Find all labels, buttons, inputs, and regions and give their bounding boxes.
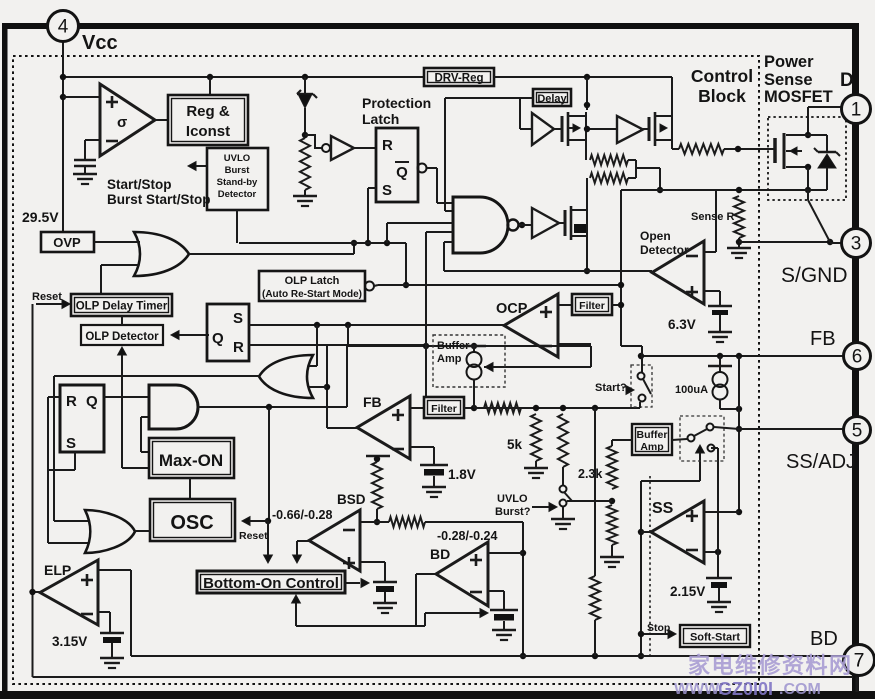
svg-text:OSC: OSC	[170, 512, 213, 534]
svg-text:OLP Delay Timer: OLP Delay Timer	[76, 301, 168, 313]
svg-text:R: R	[233, 339, 244, 356]
svg-text:SS: SS	[652, 500, 674, 517]
svg-text:GZ0I0I: GZ0I0I	[718, 679, 773, 699]
svg-text:Burst: Burst	[225, 165, 251, 176]
svg-text:FB: FB	[363, 394, 382, 410]
svg-text:6.3V: 6.3V	[668, 317, 696, 332]
svg-text:Sense R: Sense R	[691, 211, 734, 223]
svg-text:Amp: Amp	[437, 353, 462, 365]
svg-text:Control: Control	[691, 66, 753, 86]
svg-text:Amp: Amp	[640, 441, 663, 453]
svg-text:SS/ADJ: SS/ADJ	[786, 451, 856, 473]
svg-text:-0.66/-0.28: -0.66/-0.28	[272, 508, 333, 522]
svg-text:BSD: BSD	[337, 492, 366, 507]
svg-text:Q: Q	[86, 393, 98, 410]
svg-text:OVP: OVP	[53, 235, 81, 250]
svg-text:2.3k: 2.3k	[578, 467, 602, 481]
svg-text:Vcc: Vcc	[82, 32, 118, 54]
svg-text:DRV-Reg: DRV-Reg	[435, 73, 484, 85]
svg-text:家电维修资料网: 家电维修资料网	[688, 653, 853, 678]
svg-text:1.8V: 1.8V	[448, 467, 476, 482]
svg-text:Sense: Sense	[764, 71, 813, 89]
svg-text:6: 6	[852, 347, 863, 368]
svg-text:MOSFET: MOSFET	[764, 88, 833, 106]
svg-text:R: R	[382, 137, 393, 154]
svg-text:Block: Block	[698, 86, 746, 106]
svg-text:OLP Detector: OLP Detector	[85, 331, 159, 343]
svg-text:5: 5	[852, 421, 863, 442]
svg-text:S: S	[233, 310, 243, 327]
svg-text:Reg &: Reg &	[186, 103, 230, 120]
svg-text:Burst?: Burst?	[495, 506, 531, 518]
svg-text:Start?: Start?	[595, 382, 627, 394]
svg-text:Soft-Start: Soft-Start	[690, 632, 740, 644]
svg-text:Buffer: Buffer	[637, 429, 668, 441]
svg-text:D: D	[840, 70, 854, 91]
svg-text:Q: Q	[212, 330, 224, 347]
svg-text:Max-ON: Max-ON	[159, 451, 223, 470]
svg-text:100uA: 100uA	[675, 384, 708, 396]
svg-text:σ: σ	[117, 114, 127, 131]
svg-text:WWW.: WWW.	[674, 681, 723, 698]
svg-text:S: S	[66, 435, 76, 452]
svg-text:OLP Latch: OLP Latch	[285, 275, 340, 287]
svg-text:5k: 5k	[507, 437, 523, 452]
svg-text:Stand-by: Stand-by	[217, 177, 258, 188]
svg-text:R: R	[66, 393, 77, 410]
svg-text:29.5V: 29.5V	[22, 209, 59, 225]
svg-text:UVLO: UVLO	[224, 153, 250, 164]
svg-text:3.15V: 3.15V	[52, 634, 87, 649]
svg-text:Bottom-On Control: Bottom-On Control	[203, 575, 339, 592]
svg-text:Latch: Latch	[362, 111, 399, 127]
svg-text:Iconst: Iconst	[186, 123, 230, 140]
svg-text:4: 4	[58, 17, 69, 38]
svg-text:Protection: Protection	[362, 95, 431, 111]
svg-text:BD: BD	[430, 546, 450, 562]
svg-text:Open: Open	[640, 229, 671, 243]
svg-text:S: S	[382, 182, 392, 199]
svg-text:Filter: Filter	[431, 403, 457, 415]
svg-text:UVLO: UVLO	[497, 493, 528, 505]
svg-text:(Auto Re-Start Mode): (Auto Re-Start Mode)	[262, 289, 362, 300]
svg-text:1: 1	[851, 100, 862, 121]
svg-text:Reset: Reset	[239, 530, 268, 542]
svg-text:2.15V: 2.15V	[670, 584, 705, 599]
svg-text:Reset: Reset	[32, 291, 62, 303]
svg-text:Delay: Delay	[537, 93, 567, 105]
svg-text:Power: Power	[764, 53, 814, 71]
svg-text:S/GND: S/GND	[781, 264, 848, 287]
svg-text:.COM: .COM	[779, 681, 821, 698]
svg-text:Detector: Detector	[218, 189, 257, 200]
svg-text:Burst Start/Stop: Burst Start/Stop	[107, 192, 211, 207]
svg-text:3: 3	[851, 234, 862, 255]
svg-text:Filter: Filter	[579, 300, 605, 312]
svg-text:Start/Stop: Start/Stop	[107, 177, 172, 192]
svg-text:Stop: Stop	[647, 622, 670, 634]
svg-text:BD: BD	[810, 628, 838, 650]
svg-text:Q: Q	[396, 164, 408, 181]
svg-text:FB: FB	[810, 328, 836, 350]
svg-text:7: 7	[854, 651, 865, 672]
